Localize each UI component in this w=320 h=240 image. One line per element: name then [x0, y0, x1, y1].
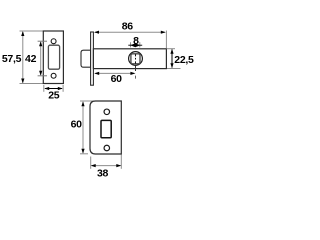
- centre line marks: [135, 54, 137, 56]
- faceplate edge bar: [91, 32, 94, 85]
- extension line right of 86: [165, 31, 167, 49]
- svg-text:57,5: 57,5: [2, 53, 22, 65]
- latch opening: [101, 120, 111, 137]
- strike plate outline: [90, 101, 121, 154]
- dim line 42: [40, 42, 42, 75]
- spindle square hole: [131, 54, 140, 64]
- tick bottom (hole centre): [38, 75, 47, 77]
- screw hole top: [104, 109, 110, 115]
- spindle follower circle: [129, 52, 143, 66]
- latch opening: [48, 45, 59, 69]
- dim line 22,5: [171, 50, 173, 68]
- svg-text:22,5: 22,5: [174, 54, 194, 66]
- screw hole top: [51, 39, 56, 44]
- screw hole bottom: [104, 145, 110, 151]
- extension lines bottom: [43, 85, 45, 92]
- tick top (hole centre): [38, 40, 47, 42]
- 8 dim extension lines: [130, 42, 132, 47]
- dim line 57,5: [22, 32, 24, 83]
- svg-text:25: 25: [48, 89, 60, 101]
- extension line top: [20, 30, 44, 32]
- svg-text:60: 60: [111, 73, 123, 85]
- dim line 25: [45, 88, 62, 90]
- latch body: [93, 49, 166, 69]
- 8 dim arrows (outward, diamond): [128, 44, 142, 46]
- svg-text:86: 86: [122, 21, 134, 33]
- dim line 38: [92, 165, 121, 167]
- svg-text:38: 38: [97, 167, 109, 179]
- dim line 60 (side view): [95, 72, 134, 74]
- extension line bottom: [80, 153, 88, 155]
- extension line top: [80, 100, 95, 102]
- dim line 86: [95, 31, 165, 33]
- 22,5 extension lines: [167, 48, 176, 50]
- dim line 60: [82, 102, 84, 153]
- screw hole bottom: [51, 73, 56, 78]
- extension line bottom: [20, 83, 44, 85]
- faceplate outline: [43, 31, 63, 84]
- 38 extension lines: [90, 157, 92, 169]
- latch bolt: [81, 50, 91, 67]
- svg-text:42: 42: [25, 53, 37, 65]
- svg-text:60: 60: [71, 119, 83, 131]
